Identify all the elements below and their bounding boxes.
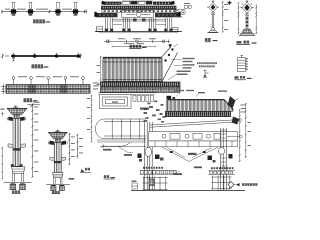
label 24B between struts bbox=[188, 153, 197, 155]
side roof left gate elevation bbox=[94, 11, 117, 17]
collar column D2 bbox=[50, 157, 66, 163]
plaque nested rectangles bbox=[100, 95, 131, 109]
label 1大样 with arrow bbox=[80, 168, 91, 173]
lamp post L1 neck bbox=[211, 13, 215, 15]
ground line column D1 bbox=[4, 181, 32, 183]
leaders above section roof bbox=[174, 90, 227, 97]
dimension text plan A bbox=[5, 8, 72, 11]
dimension ticks plan A bbox=[1, 10, 87, 14]
plan symbol lamp L1 bbox=[227, 0, 232, 5]
label 5.400平面 1:100 bbox=[31, 64, 48, 68]
ground pedestal left gate elevation bbox=[96, 27, 103, 32]
node axis-line ±0.000 plan bbox=[2, 11, 87, 13]
collar column D1 mid bbox=[8, 144, 26, 151]
tiny text row right bbox=[211, 167, 234, 169]
lamp post L2 finial bbox=[246, 0, 249, 2]
node axis bubbles beam elevation bbox=[12, 77, 84, 85]
label lamp L2 bbox=[236, 41, 256, 45]
section roof left ridge ornament bbox=[167, 96, 176, 100]
note symbol below bbox=[203, 70, 209, 78]
sloping eave lines bbox=[150, 117, 240, 128]
roof detail tile field bbox=[103, 58, 162, 82]
roof detail right slope bbox=[162, 44, 178, 82]
caption text bottom right bbox=[242, 183, 257, 186]
columns gate elevation bbox=[105, 18, 173, 31]
dimension text chain D1 bbox=[34, 107, 39, 172]
label 2-2 under column D1 bbox=[12, 190, 21, 193]
leader text right of beam bbox=[93, 83, 99, 90]
node beam-line 5.400 plan bbox=[11, 55, 81, 57]
ground line column D2 bbox=[46, 183, 70, 185]
dimension chain gate elevation bbox=[104, 38, 170, 43]
beam hatched band bbox=[6, 85, 90, 94]
dimension ticks lamp L2 bbox=[237, 2, 257, 34]
left dimension chain roof detail bbox=[97, 56, 102, 93]
leader notes right of roof detail bbox=[171, 58, 195, 69]
dimension line lamp L1 bbox=[222, 1, 228, 33]
far-left dim line bottom bbox=[1, 147, 3, 179]
ground pedestal right gate elevation bbox=[172, 28, 178, 32]
camber curve diagram bbox=[102, 142, 133, 155]
roof detail ridge top line bbox=[103, 56, 162, 58]
shaft column D2 bbox=[54, 143, 61, 173]
dougong cluster left column bbox=[144, 101, 166, 123]
note text lines bbox=[197, 62, 217, 67]
roof center boxes gate elevation bbox=[122, 1, 153, 4]
small footing bottom-left of section bbox=[131, 181, 138, 190]
bracket wings column D1 upper bbox=[7, 117, 26, 121]
finial ticks column D1 bbox=[13, 106, 18, 108]
section roof eave band bbox=[166, 111, 231, 116]
diagonal struts section bbox=[162, 147, 218, 162]
ornament ellipse on left column bbox=[145, 147, 151, 156]
right column of section bbox=[221, 128, 227, 190]
capital stem column D1 bbox=[14, 115, 19, 119]
dimension chain right of column D1 bbox=[31, 104, 33, 179]
section roof tile field bbox=[168, 99, 234, 111]
roof detail eave band 2 bbox=[101, 87, 181, 92]
bracket wings column D2 bbox=[48, 141, 67, 145]
lamp post L2 base bbox=[239, 29, 255, 35]
roof right section gate elevation bbox=[153, 1, 175, 5]
base bowl column D2 bbox=[53, 173, 63, 178]
roof detail eave band dark bbox=[101, 82, 181, 87]
finial ticks column D2 bbox=[55, 130, 60, 132]
label detail-1 bbox=[234, 76, 251, 80]
section roof upturned tip bbox=[228, 96, 239, 109]
roof left section gate elevation bbox=[101, 1, 121, 5]
vertical dim chain x91.5 bbox=[87, 95, 93, 143]
leader arrow bottom right fence bbox=[234, 183, 240, 186]
dentil row right of plaque bbox=[99, 95, 156, 102]
level mark ±0.00 top bbox=[27, 102, 40, 107]
side roof right gate elevation bbox=[155, 11, 181, 17]
lamp post L1 base bbox=[208, 27, 219, 32]
dimension line above roof detail bbox=[112, 43, 157, 47]
dimension ticks plan B bbox=[1, 53, 82, 60]
footing blocks column D1 bbox=[10, 183, 25, 189]
mini detail circles right of elevation bbox=[174, 9, 185, 17]
tiny text row left bbox=[143, 167, 163, 169]
lamp post L1 head bbox=[207, 2, 218, 12]
capital column D1 bbox=[7, 108, 27, 115]
lamp post L2 shaft with beads bbox=[245, 16, 248, 29]
balustrade row left group bbox=[140, 170, 178, 174]
capital stem column D2 bbox=[55, 139, 60, 142]
ground lines section bbox=[131, 189, 245, 191]
right dimension chains section bbox=[239, 103, 251, 162]
shaft bottom marks column D1 bbox=[11, 164, 23, 166]
base legs column D2 bbox=[54, 178, 63, 185]
label under column D2 bbox=[52, 191, 60, 194]
beam band with arc left bbox=[95, 119, 146, 139]
ornament circle on right column bbox=[218, 148, 225, 155]
leader note 2.7m roof detail bbox=[168, 71, 191, 81]
far-left tiny marks upper bbox=[1, 109, 5, 117]
label lamp L1 bbox=[205, 38, 218, 42]
top line above plaque bbox=[98, 92, 157, 94]
leader 起拱线 bbox=[172, 166, 202, 175]
dougong band 1 gate elevation bbox=[102, 6, 177, 9]
dimension text beam elevation bbox=[18, 75, 79, 78]
label 立面图 1:100 bbox=[129, 45, 146, 49]
section roof ridge bbox=[166, 99, 224, 111]
column symbols plan A bbox=[9, 8, 79, 15]
label 比例 1:10 bottom center bbox=[104, 175, 115, 179]
left column of section bbox=[145, 122, 153, 190]
balustrade row right group bbox=[209, 171, 236, 175]
label 24B near plaque bbox=[140, 108, 149, 110]
lamp post L1 finial bbox=[212, 0, 214, 2]
base bowl column D1 bbox=[12, 167, 25, 173]
shaft column D1 bbox=[13, 119, 21, 167]
lamp post L1 shaft bbox=[212, 15, 214, 28]
dimension chain between columns bbox=[68, 133, 78, 166]
dimension arrow left of beam bbox=[1, 84, 5, 94]
capital column D2 bbox=[48, 132, 67, 139]
fence ladder right bbox=[212, 176, 235, 190]
beams between columns gate elevation bbox=[113, 18, 167, 24]
fence ladder left bbox=[143, 177, 168, 190]
leader circle right of column bbox=[227, 135, 242, 138]
frieze band with circles section bbox=[149, 132, 238, 142]
ground line gate elevation bbox=[95, 32, 182, 33]
lamp post L2 neck bbox=[245, 14, 249, 16]
detail-1 box bbox=[238, 55, 246, 71]
label 梁柱详图 1:100 bbox=[23, 98, 37, 102]
tiny text left of fence bbox=[69, 178, 75, 180]
lamp post L2 head bbox=[240, 2, 253, 13]
wire stub-lines above columns bbox=[12, 2, 78, 9]
mini plan boxes top right of elevation bbox=[184, 3, 191, 8]
drum stone left column bbox=[138, 154, 164, 162]
dimension text between columns bbox=[71, 137, 83, 157]
base legs column D1 bbox=[13, 173, 24, 182]
drum stone right column bbox=[208, 154, 233, 163]
footing blocks column D2 bbox=[51, 185, 65, 191]
column dots plan B bbox=[12, 53, 80, 58]
frieze lower band section bbox=[149, 141, 238, 147]
center bay ornament gate elevation bbox=[122, 11, 153, 18]
detail-1 dots bbox=[246, 58, 248, 70]
label ±0.000平面 1:100 bbox=[33, 19, 50, 23]
lower rails under beam band bbox=[97, 140, 146, 147]
beam band 2 gate elevation bbox=[102, 10, 177, 13]
